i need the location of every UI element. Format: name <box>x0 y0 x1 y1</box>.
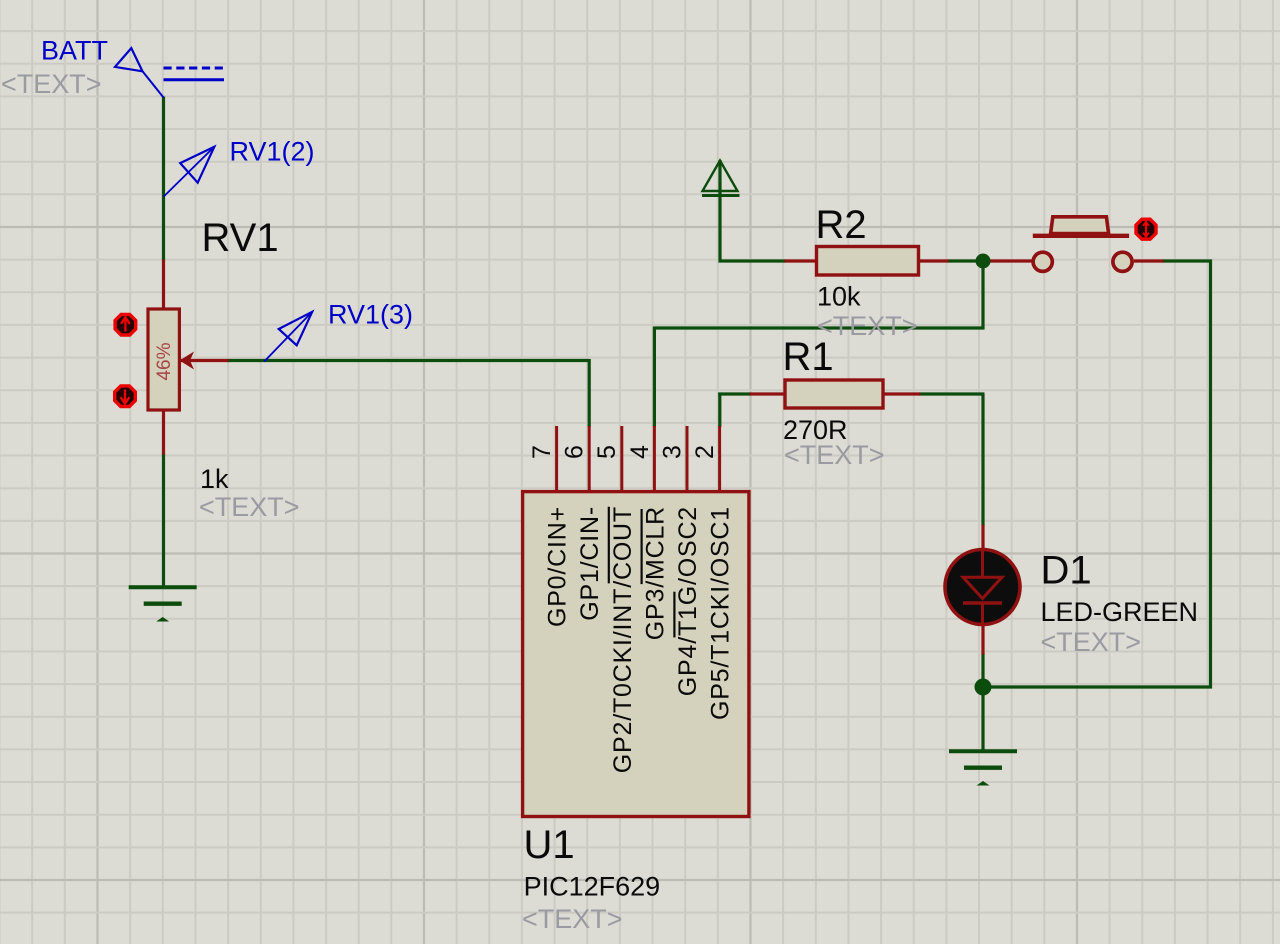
svg-text:U1: U1 <box>524 823 575 867</box>
svg-text:4: 4 <box>626 445 654 459</box>
svg-text:7: 7 <box>528 445 556 459</box>
svg-text:RV1: RV1 <box>202 216 279 260</box>
svg-text:2: 2 <box>691 445 719 459</box>
svg-text:GP3/MCLR: GP3/MCLR <box>641 506 669 640</box>
svg-text:R1: R1 <box>783 335 834 379</box>
svg-text:R2: R2 <box>816 203 867 247</box>
svg-text:6: 6 <box>561 445 589 459</box>
svg-text:PIC12F629: PIC12F629 <box>524 872 661 902</box>
svg-text:GP4/T1G/OSC2: GP4/T1G/OSC2 <box>674 506 702 696</box>
svg-text:<TEXT>: <TEXT> <box>522 904 623 934</box>
svg-text:<TEXT>: <TEXT> <box>1041 627 1142 657</box>
svg-text:3: 3 <box>658 445 686 459</box>
svg-text:GP5/T1CKI/OSC1: GP5/T1CKI/OSC1 <box>707 506 735 720</box>
svg-text:5: 5 <box>593 445 621 459</box>
svg-text:RV1(2): RV1(2) <box>230 137 315 167</box>
svg-text:GP0/CIN+: GP0/CIN+ <box>544 506 572 627</box>
svg-text:RV1(3): RV1(3) <box>328 300 413 330</box>
svg-text:270R: 270R <box>783 415 848 445</box>
svg-text:D1: D1 <box>1041 549 1092 593</box>
svg-text:<TEXT>: <TEXT> <box>1 69 102 99</box>
svg-text:LED-GREEN: LED-GREEN <box>1041 597 1199 627</box>
svg-text:GP1/CIN-: GP1/CIN- <box>576 506 604 621</box>
svg-text:10k: 10k <box>817 282 861 312</box>
svg-text:GP2/T0CKI/INT/COUT: GP2/T0CKI/INT/COUT <box>609 506 637 773</box>
svg-text:46%: 46% <box>154 342 175 380</box>
svg-text:1k: 1k <box>200 464 229 494</box>
svg-text:<TEXT>: <TEXT> <box>199 492 300 522</box>
svg-text:BATT: BATT <box>41 36 108 66</box>
